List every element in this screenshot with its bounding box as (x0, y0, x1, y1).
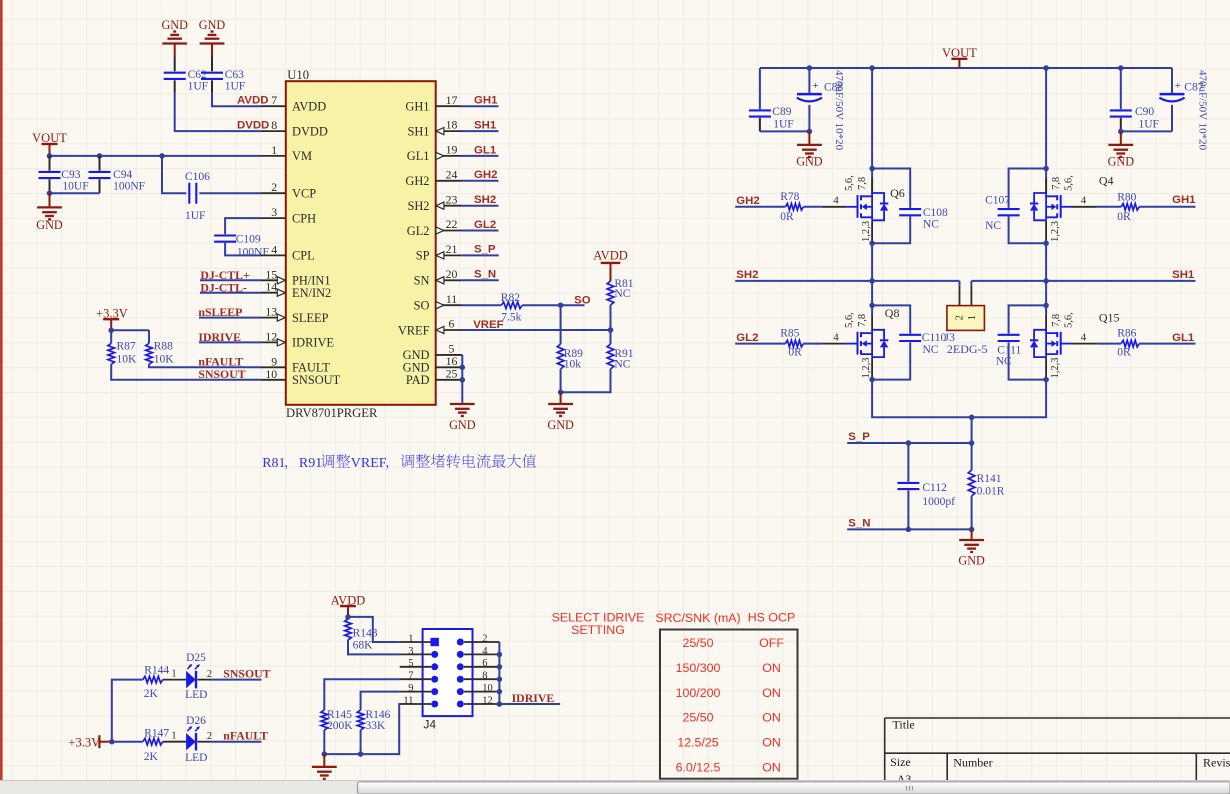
svg-text:R86: R86 (1117, 328, 1136, 340)
junction dot AVDD/R143 (345, 614, 351, 620)
resistor R144 (143, 676, 163, 683)
svg-text:4: 4 (833, 195, 839, 207)
capacitor C110 across Q8 (872, 305, 910, 333)
pin 15 PH/IN1 (U10 left) (261, 279, 286, 281)
svg-text:5,6,: 5,6, (844, 175, 855, 191)
svg-text:SNSOUT: SNSOUT (223, 666, 270, 680)
junction dot SH1/Q4Q15 (1043, 278, 1049, 284)
svg-text:17: 17 (446, 93, 458, 107)
wire C62 ground lead (174, 44, 176, 58)
svg-text:D25: D25 (186, 652, 206, 664)
svg-text:ON: ON (762, 711, 781, 725)
svg-text:200K: 200K (327, 720, 353, 732)
net label SH1 wire (IC side) (461, 130, 499, 132)
capacitor C90 (1120, 68, 1122, 109)
wire Q6 source to SH2 (871, 221, 873, 244)
svg-text:DRV8701PRGER: DRV8701PRGER (286, 406, 378, 420)
wire VOUT rail to Q4 drain (1045, 68, 1047, 178)
pin 12 IDRIVE (U10 left) (261, 341, 286, 343)
svg-text:Size: Size (890, 755, 911, 769)
wire R82 to SO label (522, 304, 584, 306)
svg-text:SH2: SH2 (407, 199, 429, 213)
table box (660, 630, 798, 779)
svg-text:6: 6 (449, 317, 455, 331)
svg-text:GND: GND (449, 418, 476, 432)
svg-text:Title: Title (893, 718, 915, 732)
svg-text:4: 4 (833, 331, 839, 343)
capacitor C106 (188, 183, 190, 204)
svg-text:5,6,: 5,6, (844, 312, 855, 328)
svg-text:C109: C109 (236, 234, 261, 246)
wire Q8 source down (871, 357, 873, 379)
pin 2 D25 (198, 679, 212, 681)
svg-text:VREF: VREF (398, 323, 430, 337)
junction dot Q8 source (869, 377, 875, 383)
wire C94 to C93 bottom (50, 192, 100, 194)
svg-text:10: 10 (482, 683, 493, 694)
svg-text:R91: R91 (299, 456, 322, 471)
svg-text:22: 22 (446, 217, 458, 231)
svg-text:VREF: VREF (351, 456, 387, 471)
junction dot R89 bottom (558, 389, 564, 395)
resistor R141 (971, 443, 973, 470)
svg-text:2: 2 (955, 315, 966, 320)
wire SH2 net (735, 280, 959, 282)
ground symbol below U10 (450, 403, 475, 405)
svg-text:GH2: GH2 (736, 195, 759, 207)
scrollbar grip (906, 786, 908, 791)
wire +3.3V to R144 (112, 680, 143, 742)
svg-text:7: 7 (408, 671, 413, 682)
svg-text:100/200: 100/200 (676, 686, 721, 700)
svg-text:C63: C63 (225, 69, 244, 81)
svg-text:7,8: 7,8 (857, 314, 868, 327)
ground symbol below C90 (1120, 131, 1122, 145)
junction dots S_P (906, 440, 912, 446)
pin 10 SNSOUT (U10 left) (261, 379, 286, 381)
wire R87 to SNSOUT (111, 364, 261, 380)
junction dots J4 right bus (497, 652, 503, 658)
pin 19 GL1 (U10 right) (436, 155, 462, 157)
svg-text:C89: C89 (772, 106, 791, 118)
svg-text:25: 25 (446, 366, 458, 380)
svg-text:21: 21 (446, 242, 458, 256)
net label S_P wire (IC side) (461, 254, 498, 256)
pin 17 GH1 (U10 right) (436, 105, 462, 107)
pin 16 GND (U10 right) (436, 366, 462, 368)
pin 9 FAULT (U10 left) (261, 366, 286, 368)
svg-text:GND: GND (161, 18, 188, 32)
svg-text:10UF: 10UF (62, 181, 88, 193)
junction dot +3.3V LED node (109, 739, 115, 745)
pin 3 CPH (U10 left) (261, 217, 286, 219)
svg-text:R143: R143 (353, 628, 378, 640)
svg-text:GL1: GL1 (1172, 332, 1195, 344)
svg-text:10: 10 (265, 367, 277, 381)
svg-text:C106: C106 (185, 171, 210, 183)
svg-text:10K: 10K (117, 353, 138, 365)
svg-text:SETTING: SETTING (571, 623, 625, 637)
svg-text:NC: NC (923, 344, 939, 356)
pin 3 stub (J4 left) (400, 653, 432, 655)
wire VOUT rail to Q6 drain (871, 68, 873, 178)
svg-text:10K: 10K (154, 353, 175, 365)
net label SH2 wire (IC side) (461, 205, 499, 207)
svg-text:VCP: VCP (292, 187, 316, 201)
svg-text:7.5k: 7.5k (501, 312, 521, 324)
wire AVDD to J4 pin 1 (348, 617, 400, 642)
transistor Q6 (857, 195, 859, 218)
junction dot Q6 source (869, 240, 875, 246)
svg-text:0R: 0R (1117, 347, 1131, 359)
junction dot Q4 drain (1043, 166, 1049, 172)
wire U10 GND pins (436, 354, 463, 356)
pin 10 stub (J4 right) (464, 691, 500, 693)
pin 1 pad (J4 square) (431, 638, 439, 646)
svg-text:SNSOUT: SNSOUT (292, 373, 341, 387)
svg-text:2: 2 (207, 731, 212, 742)
svg-text:C112: C112 (922, 482, 947, 494)
wire S_N net (847, 528, 971, 530)
svg-text:1000pf: 1000pf (922, 496, 955, 508)
svg-text:19: 19 (446, 143, 458, 157)
svg-text:12: 12 (265, 329, 277, 343)
wire +3.3V to R147 (112, 741, 143, 743)
svg-text:7,8: 7,8 (1051, 177, 1062, 190)
svg-text:20: 20 (446, 267, 458, 281)
capacitor C63 (201, 72, 223, 74)
junction dot Q6 drain (869, 166, 875, 172)
junction dot Q8 drain (869, 303, 875, 309)
net label GH2 wire (IC side) (461, 180, 499, 182)
connector J3 body (947, 306, 985, 331)
svg-text:R144: R144 (144, 664, 169, 676)
horizontal scrollbar thumb (358, 782, 1230, 794)
svg-text:470uF/50V 10*20: 470uF/50V 10*20 (833, 70, 845, 151)
svg-text:14: 14 (265, 280, 277, 294)
wire R81 to VREF (610, 305, 612, 330)
pin 5 GND (U10 right) (436, 354, 462, 356)
svg-text:S_P: S_P (848, 431, 870, 443)
capacitor C89 (759, 68, 761, 109)
svg-text:Revision: Revision (1203, 756, 1230, 770)
svg-text:1: 1 (967, 315, 978, 320)
wire VM net (50, 155, 262, 157)
svg-text:GND: GND (958, 554, 985, 568)
svg-text:SP: SP (416, 249, 430, 263)
svg-text:GND: GND (36, 218, 63, 232)
svg-text:470uF/50V 10*20: 470uF/50V 10*20 (1197, 70, 1209, 151)
svg-text:Q6: Q6 (890, 186, 905, 200)
svg-text:ON: ON (762, 761, 781, 775)
svg-text:1UF: 1UF (185, 210, 205, 222)
transistor Q15 (1060, 332, 1062, 355)
capacitor C108 across Q6 (872, 169, 910, 208)
svg-text:NC: NC (614, 288, 630, 300)
svg-text:IDRIVE: IDRIVE (292, 336, 334, 350)
wire J4 pin 9 to R146 (361, 692, 400, 710)
pin 8 pad (J4) (457, 676, 464, 683)
junction dots GND pins (460, 365, 466, 371)
wire SH2 to Q8 drain (871, 281, 873, 315)
svg-text:LED: LED (185, 689, 207, 701)
wire nFAULT net (LED side) (211, 741, 262, 743)
connector J4 body (423, 629, 473, 716)
svg-text:AVDD: AVDD (593, 249, 628, 263)
svg-text:9: 9 (408, 683, 413, 694)
svg-text:5,6,: 5,6, (1064, 312, 1075, 328)
status strip (0, 781, 1230, 794)
pin 1 D25 (163, 679, 186, 681)
pin 6 stub (J4 right) (464, 666, 500, 668)
capacitor C88 (electrolytic) (808, 68, 810, 93)
svg-text:D26: D26 (186, 715, 206, 727)
svg-text:1UF: 1UF (225, 80, 245, 92)
junction dot C93 bottom (47, 190, 53, 196)
resistor R91 (610, 330, 612, 344)
title block lines (885, 717, 1230, 719)
svg-text:6: 6 (482, 658, 487, 669)
pin 20 SN (U10 right) (436, 279, 462, 281)
capacitor C94 (99, 156, 101, 171)
svg-text:GND: GND (547, 418, 574, 432)
resistor R147 (143, 738, 163, 745)
pin 4 gate stub Q6 (823, 206, 847, 208)
pin 4 stub (J4 right) (464, 653, 500, 655)
svg-text:C110: C110 (922, 332, 947, 344)
svg-text:+: + (812, 80, 818, 92)
svg-text:R85: R85 (780, 328, 799, 340)
diode D25 (LED) (186, 671, 196, 688)
pin 11 SO (U10 right) (436, 304, 462, 306)
junction dot Q15 drain (1043, 303, 1049, 309)
ground symbol below R145 (323, 754, 325, 767)
svg-text:AVDD: AVDD (292, 100, 326, 114)
wire SNSOUT net (LED side) (211, 679, 262, 681)
resistor R82 (501, 302, 522, 309)
junction dots ground bus (322, 751, 328, 757)
pin 11 stub (J4 left) (400, 703, 432, 705)
svg-text:1UF: 1UF (188, 80, 208, 92)
svg-text:1,2,3: 1,2,3 (1050, 221, 1061, 242)
svg-text:SH2: SH2 (736, 269, 758, 281)
connector J3 pin 2 wire (959, 281, 961, 286)
svg-text:4: 4 (1081, 195, 1087, 207)
svg-text:R81: R81 (262, 456, 285, 471)
wire VM to C106 (162, 156, 186, 193)
svg-text:1: 1 (171, 731, 176, 742)
resistor R143 (345, 619, 352, 640)
svg-text:8: 8 (482, 671, 487, 682)
wire Q15 source down (1045, 357, 1047, 379)
svg-text:68K: 68K (353, 640, 374, 652)
svg-text:GH1: GH1 (1172, 194, 1196, 206)
junction dot sources join (969, 415, 975, 421)
wire C109 to CPL (225, 243, 261, 256)
svg-text:25/50: 25/50 (682, 711, 713, 725)
svg-text:PAD: PAD (406, 373, 430, 387)
pin 24 GH2 (U10 right) (436, 180, 462, 182)
svg-text:GL2: GL2 (736, 332, 758, 344)
svg-text:5: 5 (408, 658, 413, 669)
diode D26 (LED) (186, 733, 196, 750)
svg-text:GH2: GH2 (474, 169, 497, 181)
pin 11 pad (J4) (431, 701, 438, 708)
svg-text:HS OCP: HS OCP (748, 611, 796, 625)
capacitor C111 across Q15 (1009, 305, 1047, 333)
svg-text:GL2: GL2 (474, 219, 496, 231)
wire J4 pin 7 to R145 (324, 679, 399, 710)
junction dot C88 bottom (807, 129, 813, 135)
svg-text:7,8: 7,8 (1051, 314, 1062, 327)
svg-text:SH2: SH2 (474, 194, 496, 206)
pin 8 DVDD (U10 left) (261, 130, 286, 132)
svg-text:SO: SO (414, 299, 430, 313)
svg-text:12: 12 (482, 695, 493, 706)
svg-text:+3.3V: +3.3V (68, 735, 100, 749)
pin 4 gate stub Q4 (1061, 206, 1071, 208)
svg-text:1UF: 1UF (773, 118, 793, 130)
svg-text:NC: NC (614, 359, 630, 371)
wire R143 to J4 pin 3 (348, 640, 400, 655)
svg-text:23: 23 (446, 192, 458, 206)
pin 2 D26 (198, 741, 212, 743)
svg-text:S_N: S_N (848, 518, 870, 530)
pin 8 stub (J4 right) (464, 678, 500, 680)
wire SH1 net (971, 280, 1195, 282)
pin 12 stub (J4 right) (464, 703, 500, 705)
junction dot VREF/R91 (608, 327, 614, 333)
pin 2 stub (J4 right) (464, 641, 500, 643)
svg-text:C94: C94 (113, 169, 132, 181)
wire R89 R91 bottoms (561, 369, 611, 392)
net label GH1 wire (IC side) (461, 105, 499, 107)
junction dot SH2/Q6Q8 (869, 278, 875, 284)
svg-text:GL2: GL2 (407, 224, 430, 238)
svg-text:SLEEP: SLEEP (292, 311, 329, 325)
wire SO net (461, 304, 502, 306)
resistor R81 (607, 281, 614, 305)
svg-text:SRC/SNK (mA): SRC/SNK (mA) (655, 611, 740, 625)
svg-text:2K: 2K (144, 688, 159, 700)
svg-text:DVDD: DVDD (292, 124, 328, 138)
pin 1 VM (U10 left) (261, 155, 286, 157)
pin 12 pad (J4) (457, 701, 464, 708)
svg-text:1: 1 (171, 669, 176, 680)
svg-text:0R: 0R (780, 211, 794, 223)
capacitor C93 (49, 156, 51, 171)
svg-text:3: 3 (408, 646, 413, 657)
svg-text:SH1: SH1 (407, 124, 429, 138)
svg-text:0R: 0R (788, 347, 802, 359)
svg-text:2EDG-5: 2EDG-5 (947, 342, 988, 356)
pin 4 CPL (U10 left) (261, 254, 286, 256)
junction dot +3.3V node (108, 328, 114, 334)
pin 23 SH2 (U10 right) (436, 205, 462, 207)
junction dots VM net (47, 153, 53, 159)
pin 6 VREF (U10 right) (436, 329, 462, 331)
pin 4 gate stub Q15 (1061, 343, 1071, 345)
svg-text:C93: C93 (61, 169, 80, 181)
sheet left border bar (0, 0, 3, 781)
svg-text:GH1: GH1 (474, 95, 498, 107)
svg-text:3: 3 (271, 205, 277, 219)
pin 18 SH1 (U10 right) (436, 130, 462, 132)
capacitor C112 (907, 443, 909, 482)
capacitor C87 (electrolytic) (1171, 68, 1173, 93)
transistor Q4 (1060, 195, 1062, 218)
svg-text:GL1: GL1 (474, 144, 497, 156)
svg-text:SH1: SH1 (1172, 269, 1195, 281)
svg-text:6.0/12.5: 6.0/12.5 (676, 761, 721, 775)
wire VREF net (461, 329, 611, 331)
wire J4 pin 11 to ground bus (324, 704, 399, 754)
pin 22 GL2 (U10 right) (436, 230, 462, 232)
svg-text:R147: R147 (144, 727, 169, 739)
svg-text:4: 4 (482, 646, 488, 657)
svg-text:CPL: CPL (292, 249, 315, 263)
svg-text:DVDD: DVDD (237, 120, 269, 132)
svg-text:+: + (1175, 80, 1181, 92)
capacitor C62 (164, 72, 186, 74)
wire IDRIVE net (J4 side) (499, 703, 560, 705)
svg-text:nFAULT: nFAULT (223, 729, 268, 743)
svg-text:C90: C90 (1135, 106, 1154, 118)
ground symbol above C62 (162, 42, 187, 44)
svg-text:Q8: Q8 (885, 306, 900, 320)
svg-text:13: 13 (265, 305, 277, 319)
svg-text:2: 2 (207, 669, 212, 680)
resistor R89 (560, 305, 562, 344)
pin 4 gate stub Q8 (823, 343, 847, 345)
svg-text:2: 2 (271, 180, 277, 194)
svg-text:GH1: GH1 (405, 100, 429, 114)
junction dots VOUT rail (807, 65, 813, 71)
svg-text:VREF: VREF (473, 319, 503, 331)
svg-text:2: 2 (482, 633, 487, 644)
svg-text:Q15: Q15 (1099, 311, 1120, 325)
svg-text:7,8: 7,8 (857, 177, 868, 190)
ground symbol above C63 (200, 42, 225, 44)
svg-text:2K: 2K (144, 751, 159, 763)
pin 4 pad (J4) (457, 651, 464, 658)
svg-text:R82: R82 (501, 292, 520, 304)
svg-text:11: 11 (446, 292, 457, 306)
wire Q8 Q15 sources join (872, 380, 1046, 418)
svg-text:LED: LED (185, 752, 207, 764)
wire SH1 to Q15 drain (1045, 281, 1047, 315)
svg-text:J4: J4 (423, 718, 436, 732)
svg-text:CPH: CPH (292, 211, 316, 225)
svg-text:4: 4 (1081, 331, 1087, 343)
wire C87 to C90 bottom (1121, 130, 1172, 132)
svg-text:24: 24 (446, 167, 458, 181)
svg-text:Q4: Q4 (1099, 173, 1114, 187)
ground symbol below R89 (560, 392, 562, 404)
svg-text:0R: 0R (1117, 211, 1131, 223)
net label GL2 wire (IC side) (461, 230, 499, 232)
wire J4 right bus (498, 642, 500, 704)
svg-text:IDRIVE: IDRIVE (512, 691, 555, 705)
net label S_N wire (IC side) (461, 279, 498, 281)
pin 7 AVDD (U10 left) (261, 105, 286, 107)
wire R88 to nFAULT (149, 364, 261, 367)
junction dot SO/R89 (558, 302, 564, 308)
svg-text:0.01R: 0.01R (977, 485, 1005, 497)
pin 3 pad (J4) (431, 651, 438, 658)
svg-text:25/50: 25/50 (682, 636, 713, 650)
junction dot Q15 source (1043, 377, 1049, 383)
